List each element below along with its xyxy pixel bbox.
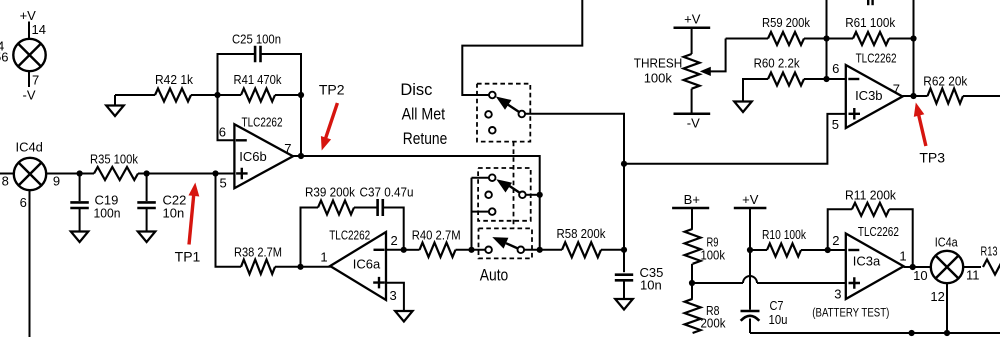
svg-text:(BATTERY TEST): (BATTERY TEST) [812,306,889,320]
node output net to R58 [537,247,543,253]
svg-text:7: 7 [284,141,291,156]
svg-text:8: 8 [2,174,9,189]
svg-text:R11 200k: R11 200k [845,188,896,203]
node S2 common [537,192,543,198]
mechanical link dashed [513,142,515,229]
wire pin 6 down [29,190,31,337]
svg-text:Disc: Disc [400,81,432,99]
svg-text:100n: 100n [94,206,121,221]
svg-text:10n: 10n [163,206,185,221]
svg-text:THRESH: THRESH [634,56,683,71]
svg-text:200k: 200k [701,316,726,331]
wire pin6 feedback [218,95,235,140]
node IC3a output [910,264,916,270]
switch S1 arm [508,105,520,113]
node IC3b output [910,93,916,99]
switch S1 contacts [489,92,496,99]
svg-text:R10 100k: R10 100k [762,227,806,242]
switch S3 contacts [485,247,492,254]
wire R38 to IC6a pin1 [275,266,331,268]
svg-text:10: 10 [913,268,927,283]
svg-text:+V: +V [742,192,759,207]
resistor R8 200k [685,299,701,333]
svg-text:IC3b: IC3b [855,88,882,103]
wire S1 common [525,114,624,250]
switch S1 box [477,84,530,142]
svg-text:Auto: Auto [480,267,509,285]
switch S2 box [478,168,531,221]
ground R42 [114,95,116,106]
op-amp IC6a [330,232,386,300]
wire IC4a pin 12 down [946,283,948,333]
svg-text:-V: -V [23,88,36,103]
svg-text:7: 7 [32,73,39,88]
node pin6 feedback top [823,35,829,41]
node C22 top [144,170,150,176]
svg-text:Retune: Retune [403,130,448,148]
capacitor C19 100n [79,174,81,202]
ground C35 [615,299,633,310]
svg-text:10u: 10u [769,312,788,327]
svg-text:9: 9 [53,174,60,189]
node R41 right [298,92,304,98]
ground C22 [138,232,156,243]
node IC3b pin6 [823,76,829,82]
svg-text:6: 6 [219,125,226,140]
wire pin 8 [0,173,14,175]
node R61 right [910,35,916,41]
svg-text:IC3a: IC3a [853,254,881,269]
svg-text:56: 56 [0,50,9,65]
svg-text:-V: -V [687,116,700,131]
node C35 top [621,247,627,253]
wiper arrow [708,39,726,72]
svg-text:C25 100n: C25 100n [232,32,281,47]
svg-text:2: 2 [391,233,398,248]
node IC6b output [298,153,304,159]
svg-text:+V: +V [684,12,701,27]
wire S3 to R58 [524,249,562,251]
wire pin3 to ground [386,283,404,311]
svg-text:10n: 10n [640,278,662,293]
svg-text:TP2: TP2 [319,82,345,98]
svg-text:R42 1k: R42 1k [155,72,193,87]
node R42/R41/C25 [214,92,220,98]
node bottom rail 1 [909,330,915,336]
node IC4d out [77,170,83,176]
svg-text:11: 11 [966,268,980,283]
svg-text:TLC2262: TLC2262 [858,224,899,239]
capacitor C22 10n [146,174,148,202]
switch S3 box [479,228,533,258]
switch S2 arm [508,185,520,193]
op-amp IC6b [234,124,293,188]
svg-text:C7: C7 [770,298,784,313]
node bottom rail 2 [944,330,950,336]
wire R35 to node [138,173,234,175]
wire feedback down [300,95,302,156]
node IC6a output [297,264,303,270]
svg-text:R62 20k: R62 20k [923,74,967,89]
svg-text:6: 6 [832,61,839,76]
svg-text:R35 100k: R35 100k [90,152,138,167]
node R40 right [468,247,474,253]
capacitor C7 10u [749,250,751,310]
svg-text:TLC2262: TLC2262 [856,51,897,66]
op-amp IC3a [846,234,904,300]
svg-text:12: 12 [930,289,944,304]
svg-text:14: 14 [32,22,46,37]
wire output [293,155,301,157]
svg-text:IC4a: IC4a [935,235,959,250]
svg-text:All Met: All Met [402,105,446,123]
wire bottom rail [750,332,1000,334]
svg-text:5: 5 [220,176,227,191]
ground C19 [71,232,89,243]
svg-text:R59 200k: R59 200k [762,15,810,30]
svg-text:3: 3 [390,288,397,303]
ground R60 [734,102,752,113]
svg-text:IC6a: IC6a [353,257,381,272]
svg-text:1: 1 [320,250,327,265]
svg-text:100k: 100k [644,71,673,86]
wire down to R38 [216,174,242,267]
node IC3b pin5 net [621,161,627,167]
svg-text:TP1: TP1 [175,249,201,265]
wire switch2 contacts to R40 node [471,178,473,250]
wire to IC3b pin5 [624,114,846,164]
wire top net into switch1 [462,0,582,95]
switch S3 arm [506,243,518,248]
wire R9/R8 node to IC3a pin3 with hop [692,282,743,284]
svg-text:100k: 100k [701,248,726,263]
capacitor C35 10n [623,250,625,272]
node IC6b pin5 [212,170,218,176]
svg-text:+V: +V [20,8,37,23]
svg-text:R40 2.7M: R40 2.7M [412,228,461,243]
svg-text:R61 100k: R61 100k [845,15,895,30]
ground IC6a pin3 [395,311,413,322]
wire IC3b output [903,95,928,97]
node +V/R10/C7 [747,247,753,253]
svg-text:R60 2.2k: R60 2.2k [754,56,800,71]
svg-text:R39 200k: R39 200k [305,185,355,200]
node IC3a pin2 [825,247,831,253]
op-amp IC3b [846,65,903,128]
node R9/R8 [689,280,695,286]
capacitor top cropped [867,0,869,5]
svg-text:6: 6 [20,195,27,210]
wire S2 common to output net [526,194,540,196]
svg-text:B+: B+ [684,192,700,207]
svg-text:2: 2 [832,233,839,248]
node IC6a pin2 [401,247,407,253]
wire IC4a pin 11 to R13 [963,266,981,268]
svg-text:R41 470k: R41 470k [234,72,282,87]
wire pin2 stub [386,249,404,251]
svg-text:R58 200k: R58 200k [557,226,606,241]
wire output to switch column [301,156,540,250]
wire top cap verticals [826,0,828,79]
svg-text:R13: R13 [981,244,998,259]
svg-text:1: 1 [899,248,906,263]
svg-text:R38 2.7M: R38 2.7M [234,245,282,260]
svg-text:7: 7 [893,82,900,97]
switch S2 contacts [489,174,496,181]
svg-text:IC6b: IC6b [239,149,266,164]
svg-text:IC4d: IC4d [15,140,42,155]
svg-text:3: 3 [834,287,841,302]
resistor R9 100k [685,229,701,264]
svg-text:TLC2262: TLC2262 [242,114,283,129]
svg-text:5: 5 [832,117,839,132]
wire pin 9 [46,173,94,175]
svg-text:C37 0.47u: C37 0.47u [360,185,414,200]
svg-text:TLC2262: TLC2262 [329,227,370,242]
svg-text:TP3: TP3 [919,150,945,166]
wire IC3a output [904,266,931,268]
